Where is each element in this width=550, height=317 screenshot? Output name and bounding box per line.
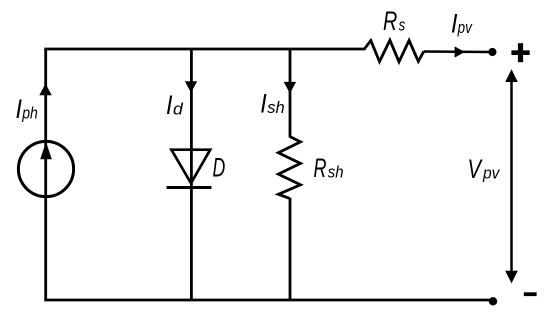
label Vpv — [468, 154, 501, 184]
label + (positive terminal) — [511, 43, 529, 62]
label Id — [166, 90, 183, 120]
svg-text:pv: pv — [457, 18, 473, 37]
current source arrow — [40, 142, 52, 159]
svg-text:R: R — [314, 153, 327, 183]
svg-text:s: s — [399, 15, 406, 34]
label Rsh — [314, 153, 344, 183]
wire: Rs to positive output node — [424, 50, 489, 53]
svg-text:sh: sh — [328, 163, 344, 182]
resistor R1 (Rs) zigzag — [365, 40, 424, 62]
wire: diode branch — [190, 49, 193, 300]
svg-text:D: D — [213, 152, 226, 182]
svg-text:I: I — [260, 89, 267, 119]
wire: shunt branch — [289, 49, 292, 300]
wire: bottom rail — [44, 299, 493, 302]
diode D — [167, 150, 212, 188]
svg-text:R: R — [383, 6, 397, 36]
wire: top rail — [44, 48, 365, 51]
svg-text:ph: ph — [21, 104, 37, 123]
node: negative output terminal — [489, 297, 497, 305]
arrow Vpv (voltage measurement, double-headed) — [505, 69, 518, 283]
arrowhead Ipv current direction — [455, 46, 465, 57]
svg-text:pv: pv — [482, 164, 501, 183]
label Iph — [16, 94, 38, 124]
label Rs — [383, 6, 406, 36]
label Ish — [260, 89, 285, 119]
arrowhead Iph current direction — [39, 84, 51, 96]
svg-text:V: V — [468, 154, 483, 184]
node: positive output terminal — [488, 48, 496, 56]
svg-text:I: I — [166, 90, 173, 120]
svg-text:d: d — [173, 100, 183, 119]
arrowhead Id current direction — [185, 81, 197, 93]
label Ipv — [451, 8, 473, 38]
resistor R2 (Rsh) zigzag — [278, 137, 300, 199]
label - (negative terminal) — [524, 292, 537, 296]
svg-text:sh: sh — [267, 98, 285, 117]
current source U1 (photocurrent Iph) — [18, 141, 73, 196]
wire: left branch — [44, 49, 47, 300]
arrowhead Ish current direction — [284, 82, 296, 94]
